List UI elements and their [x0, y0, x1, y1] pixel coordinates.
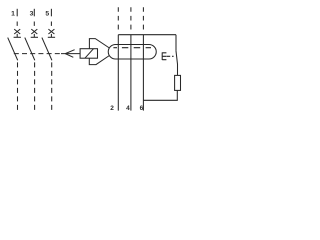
svg-text:3: 3 [30, 11, 34, 18]
svg-text:2: 2 [110, 105, 114, 112]
svg-text:6: 6 [140, 105, 144, 112]
svg-text:1: 1 [11, 11, 15, 18]
svg-text:4: 4 [126, 105, 130, 112]
svg-text:5: 5 [45, 11, 49, 18]
